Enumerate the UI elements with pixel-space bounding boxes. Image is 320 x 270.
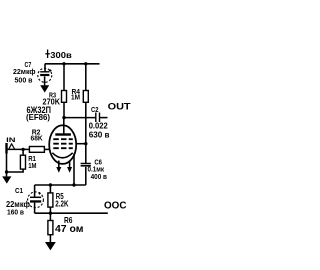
svg-text:ООС: ООС bbox=[104, 201, 127, 212]
node junction rail-R3 bbox=[62, 62, 65, 65]
capacitor C1 bbox=[28, 192, 44, 208]
resistor R2 bbox=[29, 147, 44, 153]
wire cathode lead bbox=[73, 154, 75, 186]
node input ground junction bbox=[5, 170, 8, 173]
capacitor C6 bbox=[81, 163, 91, 166]
svg-text:(ЕF86): (ЕF86) bbox=[26, 112, 50, 122]
input plug caret bbox=[9, 144, 15, 149]
wire R3 top lead bbox=[63, 64, 65, 91]
wire R1 bottom lead to input ground bbox=[7, 169, 24, 172]
wire feedback rail bbox=[35, 212, 108, 214]
wire input to grid stopper bbox=[7, 148, 30, 150]
label R3 270K bbox=[43, 93, 61, 107]
resistor R4 bbox=[83, 91, 88, 103]
svg-text:300в: 300в bbox=[50, 50, 72, 60]
node +300v supply terminal bbox=[45, 50, 49, 59]
ground R6 arrow bbox=[45, 242, 56, 250]
wire R6 top lead bbox=[49, 213, 51, 220]
node screen junction bbox=[84, 142, 87, 145]
heater pin right arrow bbox=[67, 161, 72, 173]
svg-text:47 ом: 47 ом bbox=[55, 224, 84, 235]
svg-text:OUT: OUT bbox=[108, 102, 131, 113]
tube U1 6Ж32П envelope bbox=[49, 125, 76, 164]
heater pin left arrow bbox=[56, 161, 61, 173]
node R5/R6 junction bbox=[49, 212, 52, 215]
wire C7 top lead bbox=[44, 64, 46, 72]
wire C2 output lead bbox=[100, 117, 108, 119]
resistor R3 bbox=[62, 91, 67, 103]
node input junction bbox=[21, 148, 24, 151]
label R1 1M bbox=[28, 156, 37, 170]
svg-text:630 в: 630 в bbox=[89, 130, 110, 140]
label R4 1M bbox=[71, 89, 80, 102]
svg-text:400 в: 400 в bbox=[91, 172, 108, 181]
svg-text:1M: 1M bbox=[71, 95, 80, 102]
wire R2 to control grid bbox=[44, 148, 49, 150]
input terminal bar bbox=[5, 143, 7, 154]
node cathode-tube junction bbox=[72, 183, 75, 186]
wire screen grid lead to R4/C6 bbox=[76, 143, 86, 145]
svg-text:160 в: 160 в bbox=[7, 210, 24, 217]
svg-text:C1: C1 bbox=[15, 188, 23, 195]
wire R1 top lead bbox=[22, 149, 24, 155]
wire C7 bottom lead bbox=[44, 76, 46, 85]
wire power rail bbox=[45, 63, 100, 65]
node anode junction bbox=[62, 116, 65, 119]
grid g1 dashed row bbox=[53, 147, 73, 149]
svg-text:C6: C6 bbox=[94, 159, 102, 166]
label C2 value bbox=[89, 121, 110, 140]
label tube type bbox=[26, 105, 51, 122]
svg-text:22мкф: 22мкф bbox=[6, 199, 30, 209]
resistor R1 bbox=[20, 155, 25, 169]
wire anode lead into tube bbox=[63, 118, 65, 134]
ground C7 arrow bbox=[40, 85, 49, 92]
wire cathode rail bbox=[35, 184, 86, 186]
label C7 value bbox=[13, 62, 36, 84]
svg-text:68K: 68K bbox=[31, 134, 44, 143]
wire R4 top lead bbox=[85, 64, 87, 91]
label R6 47om bbox=[55, 215, 84, 235]
grid g3 dashed row bbox=[53, 138, 73, 140]
label C6 value bbox=[88, 159, 108, 181]
wire anode to C2 bbox=[64, 117, 95, 119]
wire R5 bottom lead bbox=[49, 207, 51, 213]
anode plate bar bbox=[55, 133, 71, 135]
wire R5 top lead bbox=[49, 185, 51, 193]
svg-text:C2: C2 bbox=[91, 107, 99, 114]
node cathode-R5 junction bbox=[49, 183, 52, 186]
svg-text:R1: R1 bbox=[28, 156, 36, 163]
resistor R6 bbox=[48, 221, 53, 235]
wire C1 bottom lead bbox=[34, 203, 36, 214]
capacitor C1 top lead bbox=[34, 185, 36, 197]
wire C6 top lead bbox=[85, 144, 87, 164]
svg-text:2.2K: 2.2K bbox=[55, 198, 68, 208]
label R2 68K bbox=[31, 129, 44, 142]
cathode arc bbox=[52, 153, 72, 158]
label R5 2.2K bbox=[55, 192, 68, 208]
wire C6 bottom lead bbox=[85, 167, 87, 185]
grid g2 dashed row bbox=[53, 143, 73, 145]
wire input terminal to ground bbox=[6, 154, 8, 177]
wire R4 bottom lead down to screen grid bbox=[85, 102, 87, 143]
svg-text:500 в: 500 в bbox=[15, 75, 33, 84]
svg-text:IN: IN bbox=[6, 137, 16, 144]
label C1 value bbox=[6, 188, 30, 217]
svg-text:1M: 1M bbox=[28, 163, 37, 170]
node junction rail-R4 bbox=[84, 62, 87, 65]
capacitor C7 bbox=[38, 68, 52, 82]
wire R3 bottom lead to anode node bbox=[63, 102, 65, 117]
wire R6 bottom lead bbox=[49, 235, 51, 243]
resistor R5 bbox=[48, 193, 53, 207]
ground input arrow bbox=[2, 176, 11, 183]
capacitor C2 bbox=[96, 113, 100, 123]
